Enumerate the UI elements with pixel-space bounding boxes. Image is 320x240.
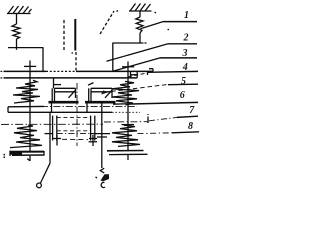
node dot left of callout 2 bbox=[168, 29, 170, 31]
callout 4 leader bbox=[128, 71, 198, 77]
node dots at left margin of plate P1 bbox=[4, 155, 6, 158]
nut on rod R4 lower bbox=[122, 124, 135, 126]
node arrow into block B2 (dashed pointer, leader of callout 5) bbox=[101, 84, 169, 94]
lower axis centerline (dash-dot left) bbox=[1, 123, 103, 125]
spring seat plate P1 (lower-left) bbox=[10, 151, 44, 156]
spring K3 (upper-left coil spring) bbox=[8, 80, 44, 107]
callout 3 leader bbox=[113, 58, 197, 71]
fixed support S1 (top-left hatched wall) bbox=[7, 6, 32, 14]
callout 8 leader (dashed) bbox=[138, 132, 200, 134]
callout 5 leader (underline) bbox=[168, 83, 198, 86]
node dot above dashed diagonal bbox=[117, 11, 119, 12]
svg-text:5: 5 bbox=[181, 76, 186, 87]
wire: right bracket from spring K2 to platform bbox=[113, 43, 148, 72]
wire: seat link to lever bar bbox=[7, 107, 9, 113]
rod R5 (center-bottom pull rod) bbox=[101, 103, 103, 168]
rod R3 (left vertical rod through springs) bbox=[29, 61, 31, 162]
spring K4 (upper-right coil spring) bbox=[112, 81, 139, 104]
svg-text:2: 2 bbox=[183, 33, 189, 44]
callout 1 leader bbox=[141, 22, 198, 29]
callout 7 leader (dash-dot) bbox=[149, 116, 198, 121]
spring K2 (top-right small spring) bbox=[136, 11, 143, 43]
platform top plate (lower line) bbox=[1, 77, 138, 79]
callout 6 leader bbox=[126, 102, 199, 104]
lever bar (horizontal line under blocks) bbox=[8, 111, 140, 113]
platform top plate (upper line) bbox=[1, 70, 154, 72]
svg-text:1: 1 bbox=[184, 10, 189, 21]
spring K6 (lower-right coil spring) bbox=[112, 125, 140, 146]
nut on rod R4 bbox=[122, 66, 134, 68]
nut on rod R5 bbox=[97, 136, 107, 138]
lower axis centerline (dash-dot right) bbox=[104, 121, 148, 123]
spring K5 (lower-left coil spring) bbox=[10, 125, 42, 148]
linkage rod R6 (to release fork) bbox=[41, 112, 51, 183]
rod R1 (hidden pushrod, dashed vertical) bbox=[63, 20, 65, 50]
svg-text:8: 8 bbox=[188, 121, 193, 132]
svg-text:6: 6 bbox=[180, 90, 185, 101]
svg-text:4: 4 bbox=[182, 62, 188, 73]
tick at right end of centerline bbox=[147, 114, 149, 123]
wire: left bracket from spring K1 to platform bbox=[8, 47, 43, 71]
platform left step under plate bbox=[54, 78, 94, 88]
spring K1 (top-left small spring) bbox=[12, 14, 20, 48]
hidden housing box (dashed rectangle) bbox=[45, 116, 111, 146]
axis centerline (main horizontal dash-dot) bbox=[41, 106, 137, 108]
rod R3 tip hook bbox=[27, 159, 30, 161]
fixed support S2 (top-right hatched wall) bbox=[129, 4, 156, 14]
friction block B1 (left) bbox=[49, 88, 79, 102]
pivot eye (small circle at fork end) bbox=[37, 183, 42, 188]
spring seat plate P2 (lower-right) bbox=[107, 151, 148, 155]
leader (dashed diagonal at top-center) bbox=[100, 11, 114, 34]
callout 2 leader bbox=[107, 44, 198, 61]
vertical axis centerline (dash-dot) bbox=[76, 83, 78, 146]
force arrow at rod R5 end bbox=[96, 168, 110, 187]
platform right end fittings bbox=[131, 69, 154, 78]
wire: right block foot bbox=[86, 103, 88, 112]
friction block B2 (right) bbox=[85, 88, 116, 102]
rod R4 (right vertical rod through springs) bbox=[127, 62, 129, 161]
wire: left block foot bbox=[51, 103, 53, 112]
nut on rod R3 bbox=[24, 65, 36, 67]
node dot below rod R2 bbox=[72, 52, 74, 54]
rod R2 (solid pushrod, thick vertical) bbox=[74, 19, 76, 51]
svg-text:3: 3 bbox=[182, 48, 188, 59]
rod R2 hidden continuation bbox=[75, 52, 77, 71]
